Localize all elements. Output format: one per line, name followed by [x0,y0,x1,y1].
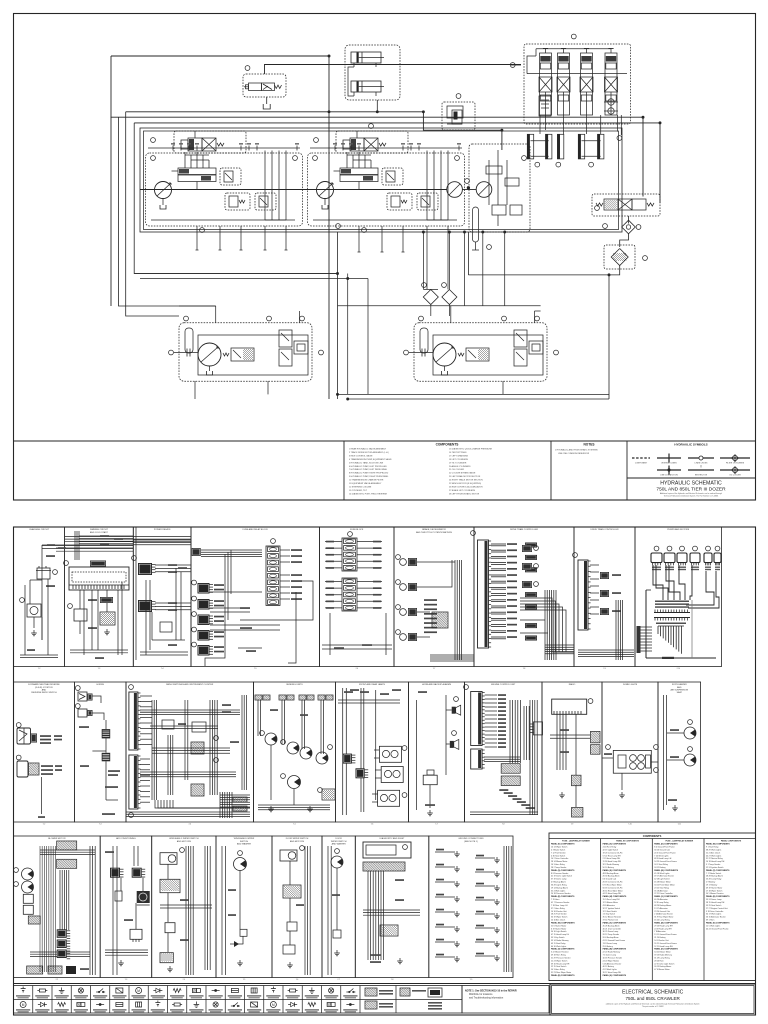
pilot valve V1 dashed enclosure [243,74,286,97]
svg-text:AND MOTORS: AND MOTORS [177,840,192,843]
front rear lamps top labels [338,689,401,703]
svg-text:7-6: 7-6 [296,979,299,981]
cylinder B2 body [351,81,384,92]
menu switches small module 1 [162,720,186,729]
svg-text:FUSE AND RELAY BLOCK: FUSE AND RELAY BLOCK [243,528,269,531]
svg-text:51 6 Starter Motor: 51 6 Starter Motor [551,924,567,927]
pump module 1 port bus [148,143,300,150]
drive train controller label circle [471,531,476,536]
svg-text:45 18 Work Lights: 45 18 Work Lights [654,872,669,875]
svg-text:COMPONENT: COMPONENT [635,463,648,465]
charging circuit battery [36,566,51,579]
left track motor shuttle valve [294,341,308,354]
menu switches mid wire field [140,700,240,800]
svg-text:PANEL (M) COMPONENTS: PANEL (M) COMPONENTS [603,895,627,898]
svg-text:PANEL (E) COMPONENTS: PANEL (E) COMPONENTS [654,843,678,846]
svg-text:1 HYDRAULIC AND HYDROSTATIC: 1 HYDRAULIC AND HYDROSTATIC SYSTEMS [555,449,598,452]
svg-text:48 9 Head Lamp LH: 48 9 Head Lamp LH [654,858,672,860]
pump module 2 charge pump circle [317,182,334,199]
pump module 1 valve stack [172,152,217,190]
svg-text:40 13 Battery: 40 13 Battery [603,965,614,968]
section box row1: Fuse And Relay Block [191,527,320,670]
pump module 2 dashed enclosure [308,153,465,226]
right track motor right valve stack [514,330,527,366]
blower motor fan 1 label circle [14,868,19,873]
svg-text:24 3 Head Lamp RH: 24 3 Head Lamp RH [654,928,672,930]
svg-text:10 13 Wiper Switch: 10 13 Wiper Switch [551,846,567,849]
svg-text:39 3 Key Switch: 39 3 Key Switch [551,936,565,939]
svg-text:2 TRACK DRIVE MOTOR ASSEMBLY: 2 TRACK DRIVE MOTOR ASSEMBLY (L.H.) [349,451,389,454]
section box row3: Air Conditioning [100,836,152,981]
svg-text:28 LEFT HYDROSTATIC MOTOR: 28 LEFT HYDROSTATIC MOTOR [449,492,480,495]
svg-text:24 RIGHT TRACK MOTOR SECTION: 24 RIGHT TRACK MOTOR SECTION [449,479,483,482]
svg-text:31 29 Lamp Relay: 31 29 Lamp Relay [654,958,669,960]
routing vertical left outer [119,117,216,306]
svg-text:26 18 Connector 16-Pin: 26 18 Connector 16-Pin [603,881,623,884]
rops heater seat motor 1 [684,727,696,739]
svg-text:53 28 Lamp Relay: 53 28 Lamp Relay [706,879,721,881]
hydraulic symbols legend row 1: lines crossing [688,456,714,465]
electrical title block box [550,984,756,1015]
svg-text:4 TRANSMISSION PUMP, EQUIPME: 4 TRANSMISSION PUMP, EQUIPMENT VALVE [349,458,392,461]
svg-text:7-2: 7-2 [56,979,59,981]
section box row2: Horn And Backup Alarms [409,682,465,826]
svg-text:AND MOTORS: AND MOTORS [290,840,305,843]
windshield wiper switch box [160,879,180,892]
svg-text:38 29 Work Lights: 38 29 Work Lights [706,848,721,851]
charging circuit alternator [27,604,41,617]
svg-text:22 COOLER BYPASS VALVE: 22 COOLER BYPASS VALVE [449,472,476,475]
svg-text:PANEL (K) COMPONENTS: PANEL (K) COMPONENTS [551,843,575,846]
pump module 2 solenoid valve dashed box [336,131,408,153]
svg-text:PANEL (M) COMPONENTS: PANEL (M) COMPONENTS [706,843,730,846]
filter F return line to lower bus [468,266,619,275]
left border-side routing vertical [110,117,112,306]
svg-text:44 29 Head Lamp RH: 44 29 Head Lamp RH [603,893,622,895]
svg-text:54 23 Ground Front Frame: 54 23 Ground Front Frame [654,860,677,863]
svg-text:9 1 Start Relay: 9 1 Start Relay [706,846,719,849]
svg-text:29 6 Battery: 29 6 Battery [603,945,613,948]
pump module 1 down port stubs [196,226,288,250]
windshield wiper motor assembly [160,848,184,865]
svg-text:7-5: 7-5 [254,668,257,670]
left lower feed lines [338,232,369,399]
svg-text:22 23 Wiper Switch: 22 23 Wiper Switch [551,959,567,962]
power relay 2 [138,600,152,612]
brake decelerator wire bundle to controller [430,560,474,661]
label circle right of motor M1 [465,179,470,184]
diagnostic bottom labels [370,954,403,964]
svg-text:DRIVE TRAIN CONTROLLER: DRIVE TRAIN CONTROLLER [510,528,538,531]
svg-text:12 5 Blower Motor: 12 5 Blower Motor [603,901,619,904]
page 2 border (electrical schematic sheet) [14,527,756,1015]
svg-text:58 15 Head Lamp RH: 58 15 Head Lamp RH [706,902,725,904]
windshield washer wires [222,846,243,975]
wires valve bank to cylinders [540,115,601,134]
svg-text:PANEL (B) COMPONENTS: PANEL (B) COMPONENTS [551,974,575,977]
steering valve D body [596,199,654,210]
air conditioning relay 1 [110,868,120,878]
tank symbol below pilot valve [263,104,270,109]
svg-text:20 18 Pressure Sender: 20 18 Pressure Sender [551,892,571,895]
svg-text:31 22 Neutral Relay: 31 22 Neutral Relay [706,857,723,860]
svg-text:33 14 Radio Memory: 33 14 Radio Memory [551,939,569,942]
right track motor accumulator capsule [420,328,428,353]
wire from pilot valve to tank [266,97,268,104]
legend strip mid divider [14,999,463,1001]
section box row1: Brake, Decelerator [394,527,474,670]
power relay 1 wires [155,564,191,573]
svg-text:28 14 Blower Motor: 28 14 Blower Motor [551,860,568,863]
check valve diamond below valve D [622,220,636,234]
drive train controller right bundle [520,590,574,660]
svg-text:7-5: 7-5 [293,824,296,826]
dimming lower wires [80,590,107,634]
svg-text:AND: AND [42,688,47,691]
section box row3: Door Wiper Switch [272,836,322,981]
section box row2: Engine Control Unit [465,682,543,826]
blower motor relay stack [57,929,70,959]
blower motor right verticals [90,846,95,975]
door wiper motor assembly [280,846,304,861]
bus junction dots [328,55,661,400]
drive train controller 2 connector stack [600,572,621,615]
right track motor block dashed enclosure [414,323,547,381]
svg-text:53 29 Seat Switch: 53 29 Seat Switch [706,904,721,907]
components table text columns [551,840,742,977]
horn backup alarm horn 1 label circle [454,697,459,702]
windshield wiper mid module [165,923,175,933]
svg-text:11 EQUIPMENT VALVE ASSEMBLY: 11 EQUIPMENT VALVE ASSEMBLY [349,482,382,485]
svg-text:PANEL (B) COMPONENTS: PANEL (B) COMPONENTS [654,921,678,924]
front rear lamps relay 2 [356,768,365,778]
svg-text:24 20 Wiper Motors: 24 20 Wiper Motors [603,959,620,962]
svg-text:HYDRAULIC SCHEMATIC: HYDRAULIC SCHEMATIC [660,481,722,487]
label circle above diamond G1 [422,283,427,288]
right track motor control valve [458,348,489,361]
pumps and motors comb connector row 2 [654,618,690,621]
hydraulic symbols legend row 1: component dashes [632,458,650,465]
rops heater seat motor 2 [684,754,696,766]
windshield washer diode symbol [230,941,243,947]
section box row1: Drive Train Controller [474,527,574,670]
svg-text:ELECTRICAL SCHEMATIC: ELECTRICAL SCHEMATIC [622,990,684,996]
horn backup alarm horn 2 label circle [452,731,457,736]
gauges section connector 1 [75,686,101,703]
svg-text:5 28 Alternator Exciter: 5 28 Alternator Exciter [603,962,622,965]
electrical title text [606,990,700,1009]
horn backup alarm horn 1 [452,707,456,714]
row1 cross-section bus wires [42,537,191,549]
svg-text:20 ANGLE CYLINDERS: 20 ANGLE CYLINDERS [449,465,471,468]
motor circle M1 [447,182,463,198]
charge unit E dashed enclosure [442,102,475,130]
pump module 2 valve stack [334,152,379,190]
section box row2: Menu Switches And Instrument Cluster [126,682,254,826]
svg-text:27 27 Engine Control Unit: 27 27 Engine Control Unit [706,907,728,910]
svg-text:32 2 Radio Memory: 32 2 Radio Memory [603,863,620,866]
cylinder B2 ports [353,92,355,96]
front rear lamps left ladder [343,688,376,815]
svg-text:6 HYDRAULIC PUMP, LEFT PROPE: 6 HYDRAULIC PUMP, LEFT PROPELLED [349,465,387,468]
svg-text:SEAT: SEAT [677,691,683,694]
engine control unit fanout [485,694,506,748]
left track motor inner frame [198,335,308,375]
valve bank right outlet wires [618,115,622,135]
title strip divider line [14,440,756,442]
svg-text:7 24 Work Lights: 7 24 Work Lights [654,854,668,857]
svg-text:7 12 Fuel Sender: 7 12 Fuel Sender [551,851,566,854]
svg-text:13 17 Alternator: 13 17 Alternator [654,907,668,910]
svg-text:45 28 Blower Motor: 45 28 Blower Motor [654,881,671,884]
valve bank internal pressure bus [527,73,627,75]
svg-text:14 DIAGNOSTIC PORT, FIELD REV: 14 DIAGNOSTIC PORT, FIELD REVERSE [349,492,388,495]
menu switches extra center verticals [168,695,246,795]
svg-text:SENDING UNITS: SENDING UNITS [286,684,303,686]
drive train controller ECU bar [478,540,489,648]
diamond G legs to bus [431,305,450,317]
lower distribution vertical 1 [422,232,424,289]
fuse and relay block relays [192,580,224,655]
svg-text:HORNS: HORNS [96,684,104,686]
radio wires [550,714,590,807]
svg-text:39 12 Head Lamp RH: 39 12 Head Lamp RH [603,972,622,974]
components table outer box [549,833,756,981]
svg-text:54 3 Horn Relay: 54 3 Horn Relay [551,968,565,971]
horn backup alarm horn 2 [450,741,454,748]
right track motor shuttle valve [529,341,543,354]
svg-text:MENU SWITCHES AND INSTRUMENT C: MENU SWITCHES AND INSTRUMENT CLUSTER [166,683,213,686]
svg-text:M: M [22,1003,25,1007]
svg-text:10 TRANSMISSION CHARGE FILTER: 10 TRANSMISSION CHARGE FILTER [349,479,384,482]
routing vertical to left motor feed [126,112,179,316]
svg-text:50 10 Battery: 50 10 Battery [603,866,614,869]
sending units sensor 2 [287,742,299,754]
svg-text:40 24 Ground Front Frame: 40 24 Ground Front Frame [706,927,729,930]
svg-text:9 18 Drive Controller: 9 18 Drive Controller [706,910,724,913]
svg-text:52 15 Seat Switch: 52 15 Seat Switch [551,965,566,968]
section box row2: Radio [542,682,602,826]
svg-text:41 19 Dome Light Switch: 41 19 Dome Light Switch [551,875,572,878]
main drive shaft line [140,189,447,191]
svg-text:5 HYDRAULIC TANK, SUCTION LI: 5 HYDRAULIC TANK, SUCTION LINE [349,461,384,464]
valve section 3 of bank [580,49,593,116]
svg-text:PANEL IN COMPONENTS: PANEL IN COMPONENTS [616,840,639,843]
svg-text:8 HYDRAULIC PUMP, RIGHT PROP: 8 HYDRAULIC PUMP, RIGHT PROPELLED [349,472,389,475]
section box row3: Diagnostic And Fleet [355,836,429,981]
radio speaker connector 1 [591,731,601,742]
svg-text:45 28 Backup Alarm: 45 28 Backup Alarm [603,924,620,927]
hydraulic symbols legend row 2: line connection [657,466,681,477]
svg-text:3 RIDE CONTROL VALVE: 3 RIDE CONTROL VALVE [349,454,373,457]
svg-text:8 8 Pressure Sender: 8 8 Pressure Sender [551,872,569,875]
svg-text:19 TILT CYLINDER: 19 TILT CYLINDER [449,462,467,464]
pump module 1 internal bus line [151,219,295,221]
fuse and relay block fuse column label circle [271,539,276,544]
svg-text:AND WASHER: AND WASHER [237,842,252,845]
svg-text:AND COLD START: AND COLD START [90,531,109,534]
svg-text:42 28 Light Switch: 42 28 Light Switch [654,878,669,881]
charging circuit wires [30,545,133,640]
components list column 2 text [449,448,493,496]
svg-text:ENGINE CONTROL UNIT: ENGINE CONTROL UNIT [491,684,516,686]
svg-text:FORWARD NEUTRAL REVERSE: FORWARD NEUTRAL REVERSE [28,683,60,686]
section box row2: Rops Heater [658,682,701,826]
pump module 1 relief valve dashed box 3 [255,193,276,210]
label circle above diamond G2 [442,283,447,288]
FNR joystick label circle 1 [16,723,21,728]
pump module 1 dashed enclosure [146,153,303,226]
engine control unit right connector [530,722,543,735]
dimming cluster top connector [90,561,106,567]
svg-text:Technical Publications Distrib: Technical Publications Distribution Syst… [664,495,719,498]
page 1 title text [656,481,726,498]
left lower bus pair [134,274,368,279]
svg-text:59 24 Dome Lamp: 59 24 Dome Lamp [706,899,722,901]
svg-text:34 12 Battery: 34 12 Battery [654,866,665,869]
svg-text:7 17 Brake Switch: 7 17 Brake Switch [706,872,721,875]
ground connections right bundle [504,846,511,972]
right track motor port label circle [404,350,409,355]
door washer wires [328,846,341,975]
lower distribution vertical 3 [464,232,466,306]
svg-text:56 15 Alternator Exciter: 56 15 Alternator Exciter [706,916,726,919]
section box row1: Pumps And Motors [635,527,722,670]
fuse and relay block top bundle [201,550,262,666]
svg-text:2 26 Alternator Exciter: 2 26 Alternator Exciter [654,913,673,916]
left track motor right valve stack [279,330,292,366]
gauges section chain wires [80,720,120,815]
pump module 2 relief valve dashed box 3 [417,193,438,210]
front lamp unit 1 [374,746,407,763]
svg-text:7-2: 7-2 [43,824,46,826]
power relay 1 [138,563,152,575]
pump module 2 down port stubs [358,226,449,289]
port label circle above valve bank [571,34,576,39]
pump module 1 relief valve dashed box 2 [225,193,250,210]
long routing vertical from line B to bottom bus [328,56,330,399]
svg-text:40 21 Drive Controller: 40 21 Drive Controller [603,927,622,930]
diagnostic and fleet main box [363,842,411,858]
air conditioning control box [130,929,142,942]
ground connections cluster column 1 [435,849,460,962]
svg-text:16 3 Horn Relay: 16 3 Horn Relay [551,863,565,866]
symbols box divider [626,441,628,500]
diagnostic wire bundle [363,871,420,960]
menu switches connector bar A [129,692,138,750]
svg-text:45 20 Lamp Relay: 45 20 Lamp Relay [654,920,669,922]
svg-text:7-5: 7-5 [243,979,246,981]
return riser from bus to motors [467,232,469,275]
radio lower connector 2 [572,808,583,818]
svg-text:AND: AND [677,686,682,689]
FNR reverse ratio switch body [17,761,28,777]
svg-text:52 21 Head Lamp RH: 52 21 Head Lamp RH [654,946,673,948]
pump module 2 port bus [310,143,462,150]
svg-text:PANEL (E) COMPONENTS: PANEL (E) COMPONENTS [551,895,575,898]
svg-text:7-9: 7-9 [603,668,606,670]
svg-text:41 7 Pressure Sender: 41 7 Pressure Sender [551,901,570,904]
svg-text:7-7: 7-7 [433,668,436,670]
svg-text:28 2 Temp Sender: 28 2 Temp Sender [551,866,567,869]
svg-text:OIL COOLER: OIL COOLER [729,475,741,477]
svg-text:35 4 Work Lights: 35 4 Work Lights [551,889,565,892]
drive train controller 2 bar [578,560,588,630]
valve section 2 of bank [557,49,570,116]
left motor block drain [194,381,196,399]
svg-text:7-9: 7-9 [571,824,574,826]
svg-text:7 18 Rear Lamp LH: 7 18 Rear Lamp LH [551,904,568,907]
air conditioning pressure switch [115,891,122,901]
port label circle above pilot valve [245,66,250,71]
svg-text:41 9 Work Lights: 41 9 Work Lights [603,968,617,971]
svg-text:7-3: 7-3 [98,668,101,670]
svg-text:7-10: 7-10 [628,824,632,826]
fuse and relay block fuse column [266,546,280,605]
svg-text:17 18 Wiper Switch: 17 18 Wiper Switch [706,889,722,892]
radio speaker connector 2 [591,745,601,755]
svg-text:15 DIAGNOSTIC QUICK-CHARGE PR: 15 DIAGNOSTIC QUICK-CHARGE PRESSURE [449,448,493,451]
rear lamp unit 3 [372,790,407,806]
pump module 2 relief valve dashed box 1 [382,168,403,185]
svg-text:13 11 Ground Front Frame: 13 11 Ground Front Frame [654,933,676,936]
sending units wires [258,700,330,812]
svg-text:BRAKE, DECELERATOR: BRAKE, DECELERATOR [422,528,446,531]
svg-text:FILTER OR SCREEN: FILTER OR SCREEN [726,463,745,465]
section box row1: Fuse Block [320,527,395,670]
svg-text:27 BLADE LIFT CYLINDERS: 27 BLADE LIFT CYLINDERS [449,489,476,492]
blower motor connector bar [28,916,40,924]
svg-text:26 13 Temp Sender: 26 13 Temp Sender [603,933,620,936]
hydraulic symbols legend row 1: working lines [657,454,681,465]
right track motor circle [433,343,456,366]
transmission main block outline [140,128,622,232]
components box divider [343,441,345,500]
main routing vertical from line B [110,56,112,117]
diagnostic lower module [380,925,398,936]
svg-text:COMPONENTS: COMPONENTS [643,834,662,838]
svg-text:PANEL (B) COMPONENTS: PANEL (B) COMPONENTS [603,948,627,951]
section box row1: Dimming Circuit [65,527,134,670]
svg-text:REVERSE RATIO SWITCH: REVERSE RATIO SWITCH [31,691,57,694]
svg-text:6 6 Ground Cab: 6 6 Ground Cab [603,878,616,881]
port label circle below valve bank right [617,136,622,141]
svg-text:COMPONENTS: COMPONENTS [436,443,459,447]
svg-text:26 RIDE CONTROL ACCUMULATOR: 26 RIDE CONTROL ACCUMULATOR [449,485,483,488]
windshield wiper wires [160,846,212,975]
svg-text:7-10: 7-10 [676,668,680,670]
pump module 2 gauge port lines [427,151,448,221]
svg-text:29 26 Head Lamp RH: 29 26 Head Lamp RH [654,925,673,927]
section box row2: Sending Units [254,682,336,826]
sending units label circles [260,731,333,793]
svg-text:7 19 Horn: 7 19 Horn [551,898,559,901]
dimming instrument cluster box [69,567,129,590]
page 1 border (hydraulic schematic sheet) [14,14,756,501]
svg-text:14 16 Flasher Unit: 14 16 Flasher Unit [551,910,567,913]
section box row1: Drive Train Controller [574,527,635,670]
power relay 1 label circle [132,556,137,561]
svg-text:20 3 Ground Front Frame: 20 3 Ground Front Frame [654,851,675,854]
svg-text:M: M [272,1003,275,1007]
svg-text:12 5 Work Lights: 12 5 Work Lights [706,924,720,927]
sending units sensor 4 [316,752,328,764]
pumps and motors stair bundle [658,626,684,654]
drive train controller fanout connector blocks [525,543,537,641]
menu switches small module 2 [192,722,206,732]
svg-text:7-4: 7-4 [183,979,186,981]
charge module accumulator capsule [473,207,479,242]
